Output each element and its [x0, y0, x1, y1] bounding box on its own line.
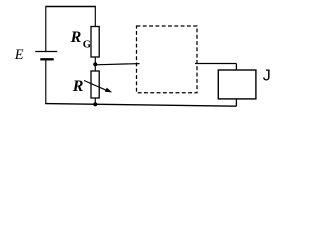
wire RG top	[94, 6, 96, 27]
svg-text:G: G	[83, 40, 91, 51]
svg-text:J: J	[263, 68, 271, 85]
wire down to J top	[235, 64, 237, 71]
resistor RG	[91, 27, 99, 58]
wire RG to R	[94, 57, 96, 71]
box J	[218, 70, 256, 99]
wire top	[46, 6, 96, 8]
wire left upper	[45, 6, 47, 51]
svg-text:R: R	[70, 29, 82, 46]
wire left lower	[45, 59, 47, 103]
wire wiper to dashed box	[95, 64, 139, 65]
svg-text:R: R	[72, 78, 84, 95]
wire bottom	[45, 104, 236, 107]
wire J bottom	[235, 99, 237, 106]
junction node upper	[93, 62, 97, 66]
wire R bottom	[94, 98, 96, 104]
resistor R (rheostat)	[91, 71, 99, 98]
battery E long plate	[35, 51, 57, 53]
wire dashed box to J	[195, 63, 236, 65]
rheostat arrow	[84, 81, 109, 92]
junction node lower	[93, 102, 97, 106]
dashed box	[137, 26, 198, 93]
svg-text:E: E	[14, 47, 24, 63]
battery E short thick plate	[40, 58, 53, 60]
